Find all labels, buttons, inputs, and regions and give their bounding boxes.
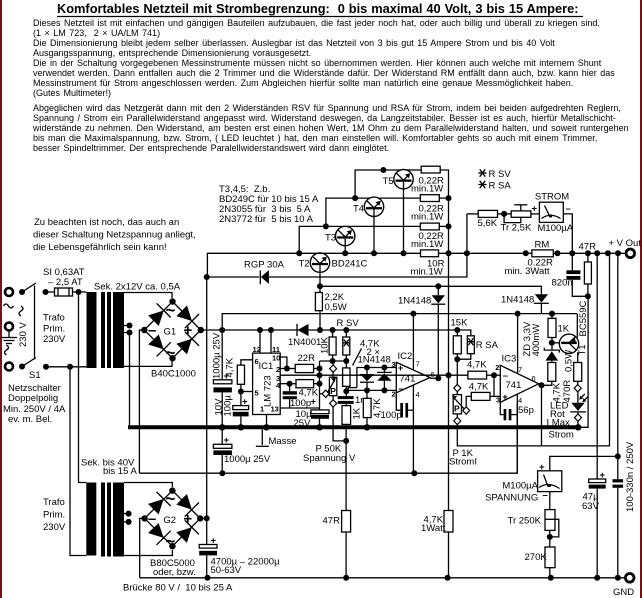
5,6K drop wire	[466, 214, 468, 253]
resistor RSV adjustable	[343, 330, 350, 361]
transformer Tr2 primary winding	[86, 483, 96, 556]
svg-text:1Watt: 1Watt	[421, 523, 446, 534]
svg-text:RM: RM	[535, 240, 550, 251]
capacitor 100-330n 250V	[613, 253, 637, 578]
svg-text:I Max: I Max	[547, 418, 570, 429]
svg-text:G1: G1	[164, 327, 177, 338]
svg-text:(1 × LM 723, 2 × UA/LM 741): (1 × LM 723, 2 × UA/LM 741)	[33, 28, 160, 38]
op-amp IC2 741	[392, 351, 435, 399]
svg-text:Tr 250K: Tr 250K	[508, 516, 542, 527]
svg-text:T5: T5	[383, 176, 394, 187]
15K RSA node down to P1K	[456, 359, 458, 384]
P1K bottom route	[457, 253, 609, 446]
raw rail wire with RGP	[207, 253, 467, 277]
potentiometer P 50K	[320, 361, 337, 407]
svg-text:Doppelpolig: Doppelpolig	[8, 393, 58, 404]
Masse bus center tap line	[129, 333, 131, 426]
diode 1N4148 right	[501, 294, 549, 313]
transistor T3	[325, 226, 355, 253]
svg-text:G2: G2	[163, 515, 176, 526]
IC1 LM723	[253, 345, 282, 415]
svg-text:12: 12	[253, 345, 261, 354]
svg-text:BC559C: BC559C	[578, 300, 589, 336]
svg-text:–: –	[398, 384, 403, 395]
svg-text:2: 2	[392, 390, 396, 399]
svg-text:P: P	[454, 404, 460, 414]
AC tilde marks	[4, 304, 24, 355]
capacitor 4700u	[199, 536, 280, 578]
svg-text:6: 6	[532, 374, 536, 383]
resistor 1K feedback	[342, 404, 363, 427]
capacitor 100u 10V	[214, 392, 249, 428]
svg-text:100µ: 100µ	[223, 395, 234, 417]
IC3 pin7 supply drop	[517, 314, 519, 374]
svg-text:4,7K: 4,7K	[224, 357, 235, 377]
svg-text:47R: 47R	[323, 516, 341, 527]
transistor T4	[353, 197, 384, 253]
paragraph 2	[32, 103, 629, 153]
svg-text:–: –	[148, 322, 156, 339]
emitter resistor 0,22R (T5)	[411, 166, 444, 194]
Trafo2 label	[43, 497, 66, 533]
capacitor 1000u 25V lower	[213, 427, 270, 473]
resistor 5,6K	[467, 210, 511, 229]
B80C5000 label	[150, 558, 196, 578]
svg-text:Dieses Netzteil ist mit einfac: Dieses Netzteil ist mit einfachen und gä…	[33, 18, 600, 28]
svg-text:63V: 63V	[582, 501, 600, 512]
P 50K label	[303, 444, 356, 465]
capacitor 47u 63V	[582, 253, 606, 578]
svg-text:Spannung / Strom ein Parallelw: Spannung / Strom ein Parallelwiderstand …	[33, 113, 616, 123]
transistor T5	[383, 170, 414, 254]
bus end riser to 47R	[579, 296, 588, 427]
svg-text:R SA: R SA	[489, 181, 512, 192]
IC2 pin7 supply drop	[412, 314, 414, 370]
svg-text:Brücke 80 V / 10 bis 25 A: Brücke 80 V / 10 bis 25 A	[123, 583, 233, 594]
positive op supply wire	[222, 311, 577, 330]
+V Out terminal	[609, 238, 642, 258]
svg-text:820n: 820n	[552, 278, 573, 289]
IC1 pin1 wire	[266, 415, 268, 428]
resistor 10R inline	[411, 250, 445, 278]
svg-text:bis 15 A: bis 15 A	[103, 466, 137, 477]
diode RGP 30A	[244, 260, 285, 285]
svg-text:M100µA: M100µA	[538, 223, 574, 234]
svg-text:Trafo: Trafo	[43, 313, 65, 324]
capacitor 1n	[338, 391, 366, 406]
transistor T1 BC559C	[552, 300, 589, 355]
svg-text:2N3772 für 5 bis 10 A: 2N3772 für 5 bis 10 A	[219, 214, 314, 225]
trimmer Tr 2,5K	[501, 205, 532, 234]
svg-text:S1: S1	[29, 370, 41, 381]
svg-text:+: +	[183, 511, 192, 528]
svg-text:Abgeglichen wird das Netzgerät: Abgeglichen wird das Netzgerät dann mit …	[33, 103, 621, 113]
svg-text:5: 5	[255, 389, 259, 398]
svg-text:–: –	[148, 511, 156, 528]
clamp diode up	[377, 368, 391, 391]
wire G2 minus to bottom rail	[140, 518, 145, 577]
capacitor 100p at IC1	[283, 384, 311, 409]
bus junction dots	[342, 250, 621, 256]
svg-text:2: 2	[276, 365, 280, 374]
minus input wire to IC3	[320, 372, 468, 378]
svg-text:IC1: IC1	[259, 361, 274, 372]
transformer Tr2 secondary winding	[113, 483, 124, 557]
svg-text:4,7K: 4,7K	[467, 360, 487, 371]
wire Tr2 sec top to G2	[124, 483, 172, 488]
fuse SI 0,63AT	[43, 267, 87, 296]
svg-text:4: 4	[416, 390, 420, 399]
resistor RM inline	[505, 240, 554, 278]
T4 emitter wire	[378, 197, 420, 199]
svg-text:22R: 22R	[298, 353, 316, 364]
svg-text:100p: 100p	[381, 410, 402, 421]
Masse ground symbol	[256, 429, 297, 447]
svg-text:230V: 230V	[43, 522, 66, 533]
clamp diode down	[360, 368, 374, 391]
svg-text:M100µA: M100µA	[502, 481, 538, 492]
svg-text:STROM: STROM	[535, 192, 569, 203]
IC3 output node	[539, 382, 545, 446]
svg-text:–: –	[543, 490, 548, 501]
resistor 4,7K at IC1 pin6	[224, 357, 252, 394]
IC1 pin3 wire	[280, 372, 322, 378]
svg-text:GND: GND	[613, 587, 634, 598]
wire Tr2 sec bottom to G2	[124, 550, 172, 556]
svg-text:IC3: IC3	[502, 354, 517, 365]
wire live down to trafo2	[79, 292, 87, 483]
svg-text:BD241C: BD241C	[332, 259, 368, 270]
emitter resistor 0,22R (T4)	[411, 195, 444, 223]
feedback column wire	[319, 361, 321, 427]
P 1K label	[449, 448, 477, 468]
emitter sense line down	[448, 253, 450, 578]
svg-text:50-63V: 50-63V	[211, 565, 242, 576]
svg-text:0,5W: 0,5W	[325, 302, 347, 313]
svg-text:Die in der Schaltung vorgegebe: Die in der Schaltung vorgegebenen Messin…	[33, 58, 602, 68]
emitter collect line	[439, 170, 451, 253]
adjustable symbol legend RSA	[478, 181, 486, 188]
resistor 1K right	[548, 314, 570, 350]
svg-text:min.1W: min.1W	[411, 239, 443, 250]
wire G2 plus raw rail up	[200, 274, 210, 545]
resistor 4,7K to opamp2 minus	[363, 390, 383, 427]
svg-text:1K: 1K	[558, 324, 570, 335]
svg-text:4: 4	[518, 396, 522, 405]
left page border	[0, 0, 2, 598]
mains plug terminal L	[5, 288, 25, 296]
T2 base control wire	[320, 283, 541, 294]
resistor RSA adjustable	[457, 330, 498, 359]
wire neutral down to trafo2	[70, 367, 86, 556]
svg-text:Strom: Strom	[549, 430, 574, 441]
svg-text:230 V: 230 V	[18, 322, 29, 347]
svg-text:–: –	[503, 371, 508, 382]
svg-text:1K: 1K	[352, 407, 363, 419]
svg-text:Die Dimensionierung bleibt jed: Die Dimensionierung bleibt jedem selber …	[33, 38, 555, 48]
svg-text:Zu beachten ist noch, das auch: Zu beachten ist noch, das auch an	[34, 217, 179, 228]
svg-text:4,7K: 4,7K	[469, 382, 489, 393]
svg-text:+: +	[532, 204, 538, 215]
mains warning note	[33, 217, 196, 253]
capacitor 10u 25V	[294, 397, 330, 430]
svg-text:besser Spindeltrimmer. Der ent: besser Spindeltrimmer. Der entsprechende…	[33, 143, 389, 153]
IC2 output wire	[430, 314, 441, 382]
resistor 10K	[320, 330, 337, 361]
op-amp IC3 741	[495, 354, 539, 406]
svg-text:Komfortables Netzteil mit Stro: Komfortables Netzteil mit Strombegrenzun…	[57, 1, 578, 16]
svg-text:min.1W: min.1W	[411, 212, 443, 223]
svg-text:100-330n / 250V: 100-330n / 250V	[625, 441, 636, 512]
trimmer Tr 250K	[508, 492, 559, 547]
resistor 15K	[451, 318, 469, 363]
svg-text:B40C1000: B40C1000	[151, 369, 196, 380]
zener ZD 3,3V	[522, 321, 559, 363]
bottom GND rail	[140, 575, 625, 581]
svg-text:ev. m. Bel.: ev. m. Bel.	[8, 414, 52, 425]
wire N to trafo1	[46, 364, 87, 370]
IC1 pin10+pin2 wires	[280, 357, 295, 372]
svg-text:Tr 2,5K: Tr 2,5K	[501, 223, 532, 234]
resistor 4,7K at IC1 pin4	[296, 380, 323, 399]
svg-text:5,6K: 5,6K	[478, 218, 498, 229]
svg-text:T3: T3	[325, 233, 336, 244]
svg-text:LM 723: LM 723	[263, 375, 274, 407]
svg-text:+: +	[398, 363, 404, 374]
adjustable symbol legend RSV	[478, 169, 486, 176]
svg-text:min.1W: min.1W	[411, 267, 443, 278]
IC1 pin13 wire	[280, 407, 319, 409]
svg-text:SPANNUNG: SPANNUNG	[485, 493, 538, 504]
svg-text:+ V Out: + V Out	[609, 238, 642, 249]
svg-text:0,5W: 0,5W	[564, 350, 575, 372]
svg-text:+: +	[184, 322, 193, 339]
P 50K wiper route down	[333, 407, 349, 444]
svg-text:T1: T1	[577, 344, 588, 355]
resistor 2,2K	[315, 283, 346, 330]
svg-text:dieser Schaltung Netzspannug a: dieser Schaltung Netzspannug anliegt,	[33, 230, 196, 241]
svg-text:+: +	[311, 397, 317, 408]
svg-text:1N4148: 1N4148	[358, 355, 391, 366]
Netzschalter label	[3, 383, 66, 425]
switch S1 pole 1	[22, 283, 49, 295]
Trafo1 label	[43, 313, 66, 346]
switch S1 pole 2	[22, 358, 49, 370]
svg-text:2: 2	[495, 363, 499, 372]
resistor 4,7K reference	[343, 339, 381, 395]
switch S1 link	[34, 286, 36, 360]
bridge rectifier G1	[141, 298, 204, 362]
right page border	[640, 0, 642, 598]
wire Tr1 sec bottom to G1	[124, 361, 172, 366]
svg-text:min.1W: min.1W	[411, 184, 443, 195]
resistor 4,7K to IC3 plus	[466, 382, 500, 407]
svg-text:+: +	[502, 392, 508, 403]
T5 emitter wire	[406, 169, 421, 171]
T4 base ladder wire	[326, 195, 370, 226]
Tr2 center tap	[124, 511, 132, 525]
svg-text:3: 3	[496, 396, 500, 405]
main output bus wire	[207, 253, 624, 277]
svg-text:4,7K: 4,7K	[552, 382, 563, 402]
transformer Tr1 core	[101, 292, 105, 368]
earth symbol	[1, 331, 17, 344]
Tr1 center tap	[124, 323, 133, 336]
transformer Tr2 core	[101, 483, 105, 557]
Masse bus	[128, 424, 581, 430]
T3 base ladder wire	[296, 223, 344, 256]
diode 1N4001	[288, 324, 321, 348]
svg-text:1000µ 25V: 1000µ 25V	[224, 454, 271, 465]
GND terminal	[613, 574, 634, 598]
IC1 pin12 pin11 wires	[260, 330, 271, 353]
svg-text:R SV: R SV	[337, 318, 360, 329]
mains plug terminal N	[5, 363, 25, 371]
IC2 pin4 drop	[412, 385, 414, 473]
svg-text:T2: T2	[299, 259, 310, 270]
svg-text:– 2,5 AT: – 2,5 AT	[48, 277, 83, 288]
resistor 470R	[562, 350, 582, 403]
meter plus wire	[550, 453, 621, 470]
transformer Tr1 secondary winding	[113, 292, 124, 368]
title	[57, 1, 583, 17]
svg-text:400mW: 400mW	[531, 324, 542, 357]
svg-text:min. 3Watt: min. 3Watt	[505, 266, 550, 277]
svg-text:270K: 270K	[525, 552, 548, 563]
resistor 4,7K below zener	[542, 363, 563, 403]
svg-text:IC2: IC2	[398, 351, 413, 362]
T5 base ladder wire	[355, 167, 401, 198]
clamp diode pair top wire	[346, 365, 396, 392]
bridge rectifier G2	[141, 487, 203, 550]
svg-text:15K: 15K	[451, 318, 469, 329]
resistor 47R vertical	[584, 253, 591, 296]
IC3 pin4 drop	[516, 394, 518, 473]
resistor 4,7K 1Watt	[421, 511, 453, 535]
capacitor 56p	[500, 402, 534, 420]
svg-text:Sek. 2x12V ca. 0,5A: Sek. 2x12V ca. 0,5A	[94, 282, 181, 293]
resistor 4,7K to IC3 minus	[467, 360, 500, 397]
svg-text:Prim.: Prim.	[43, 510, 65, 521]
svg-text:56p: 56p	[518, 405, 534, 416]
svg-text:7: 7	[416, 360, 420, 369]
transistor type note	[219, 184, 319, 225]
transistor T2	[299, 253, 368, 286]
svg-text:widerstände zu nehmen. Den Wid: widerstände zu nehmen. Den Widerstand, a…	[32, 123, 629, 133]
negative rail wire	[139, 404, 517, 476]
diode 1N4148 left	[398, 286, 445, 313]
meter STROM	[531, 192, 574, 254]
svg-text:47R: 47R	[579, 242, 597, 253]
svg-text:bis man die Maximalspannung, b: bis man die Maximalspannung, bzw. Strom,…	[33, 133, 597, 143]
svg-text:R SA: R SA	[476, 340, 499, 351]
wire Tr1 sec top to G1	[124, 293, 172, 299]
svg-text:7: 7	[518, 365, 522, 374]
IC1 pin4 wire	[280, 381, 296, 387]
emitter resistor 0,22R (T3)	[411, 223, 444, 250]
capacitor 1000u 25V upper	[212, 330, 232, 427]
svg-text:Prim.: Prim.	[43, 324, 65, 335]
mains plug terminal PE	[5, 323, 13, 331]
LED Rot I Max	[547, 392, 589, 429]
svg-text:230V: 230V	[43, 334, 66, 345]
transformer Tr1 primary winding	[87, 292, 97, 368]
svg-text:P: P	[330, 386, 336, 396]
svg-text:741: 741	[506, 380, 522, 391]
svg-text:–: –	[566, 204, 571, 215]
svg-text:die Lebensgefährlich sein kann: die Lebensgefährlich sein kann!	[33, 242, 167, 253]
aux supply rail from G1 plus	[201, 327, 461, 333]
svg-text:RGP 30A: RGP 30A	[244, 260, 285, 271]
T3 emitter wire	[346, 225, 420, 227]
potentiometer P 1K	[452, 384, 470, 424]
capacitor 100p at IC2	[381, 393, 414, 421]
svg-text:(Gutes Multimeter!): (Gutes Multimeter!)	[33, 88, 111, 98]
resistor 22R	[295, 353, 322, 373]
svg-text:Ausgangsspannung, entsprechend: Ausgangsspannung, entsprechende Dimensio…	[33, 48, 311, 58]
svg-text:Spannung V: Spannung V	[303, 453, 356, 464]
T1 collector from supply	[576, 314, 578, 338]
feedback line to 47R	[345, 429, 347, 511]
svg-text:Messinstrument für Strom anges: Messinstrument für Strom angeschlossen w…	[33, 78, 573, 88]
svg-text:1N4001: 1N4001	[288, 337, 321, 348]
svg-text:R SV: R SV	[489, 169, 512, 180]
meter SPANNUNG	[485, 462, 562, 504]
resistor 47R bottom	[323, 511, 351, 578]
svg-text:Masse: Masse	[269, 436, 297, 447]
paragraph 1	[33, 18, 615, 98]
Sek bis 40V label	[81, 458, 137, 478]
RSV bottom wire	[320, 358, 350, 364]
2x 1N4148 labels	[358, 347, 391, 366]
svg-text:1N4148: 1N4148	[398, 296, 431, 307]
svg-text:Trafo: Trafo	[43, 497, 65, 508]
clamp diode bottom wire	[346, 387, 396, 393]
resistor 270K	[525, 547, 556, 578]
svg-text:3: 3	[392, 360, 396, 369]
wire G1 minus down	[139, 330, 144, 473]
svg-text:T4: T4	[353, 204, 364, 215]
svg-text:1N4148: 1N4148	[501, 295, 534, 306]
svg-text:oder, bzw.: oder, bzw.	[153, 567, 196, 578]
svg-text:StromI: StromI	[449, 457, 477, 468]
svg-text:verwendet werden. Dann entfall: verwendet werden. Dann entfallen auch di…	[33, 68, 615, 78]
svg-text:1000µ 25V: 1000µ 25V	[212, 332, 223, 379]
capacitor 820n	[552, 253, 591, 299]
svg-text:470R: 470R	[562, 380, 573, 403]
